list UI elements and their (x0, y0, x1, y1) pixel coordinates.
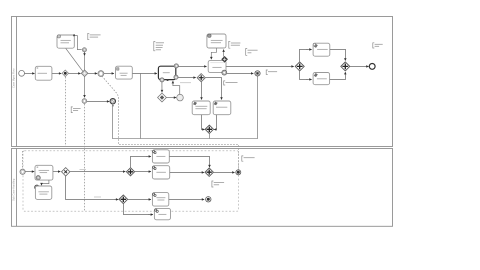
wire BE3 down to gateway G3 (161, 82, 163, 92)
gateway GP5 (parallel) (126, 168, 134, 176)
boundary event BE3 (bottom-left of CA1) (160, 78, 164, 82)
message flow dashed from G1 down (65, 77, 67, 146)
group rect (dashed, bottom pool) (23, 151, 239, 211)
wire G1 to gateway G2 (69, 72, 81, 74)
wire GX down to gateway GP7 (66, 176, 117, 199)
wire TA elbow down to box TB (42, 180, 49, 185)
task B3top (Process Config) (207, 34, 226, 48)
wire B3 to gateway G7 (226, 65, 294, 67)
wire BE1 to task B3 (178, 65, 206, 67)
wire E1 down to G2 (84, 52, 86, 56)
wire GP5 to box BB2 (135, 171, 151, 173)
wire E2 to event E3 (87, 100, 110, 102)
event E1 (intermediate) (82, 48, 86, 52)
wire G3 to event E5 (166, 97, 176, 99)
wire BB2 to gateway GP6 (170, 171, 204, 173)
annotation T1a (near B1) (88, 33, 90, 39)
start event S1 (19, 70, 25, 76)
boundary event E8 (bottom-right of B3) (222, 70, 227, 75)
task B4 (192, 101, 210, 115)
wire BE2 to gateway G4 (178, 77, 196, 79)
gateway G6 (event, dark) on B3 top-right (222, 56, 228, 62)
start event S2 (bottom pool) (20, 169, 25, 174)
task T1 (35, 66, 52, 80)
pool P1 (top) (12, 17, 393, 147)
wire B4 down to gateway G5 (202, 115, 204, 130)
boundary event BE1 (top-right of CA1) (174, 64, 178, 68)
pool P2 (bottom) (12, 149, 393, 227)
event EB (dark ring, on TB corner) (35, 185, 39, 189)
gateway G2 (exclusive X) (81, 70, 88, 77)
wire rail bottom (113, 138, 258, 140)
wire S1 to task T1 (25, 72, 35, 74)
wire G7 down to task TD (300, 71, 309, 80)
wire BB3 to end event EN3 (169, 198, 204, 200)
message flow dashed to bp start (22, 151, 24, 169)
label on wire (80, 169, 87, 171)
event E3 (dark ring) (110, 99, 115, 107)
wire GX to gateway GP5 (70, 171, 126, 173)
annotation B2a (near EN3) (212, 181, 214, 187)
gateway GX (exclusive) (62, 168, 70, 176)
wire G4 right down to task B5 (205, 78, 221, 99)
wire G2 to event E4 (88, 72, 97, 74)
task B3 (Sub Case Handle) (208, 61, 226, 73)
end event EN1 (369, 64, 375, 70)
event E4 (intermediate) (98, 71, 104, 77)
wire GP5 up to box BB1 (131, 156, 149, 167)
wire G5 down to rail (209, 133, 211, 139)
gateway G3 (complex) (158, 93, 167, 102)
wire B1 diagonal to G2 (66, 48, 83, 71)
wire B3top elbow down to B3 (211, 48, 216, 59)
gateway G1 (inclusive, dot) (62, 70, 68, 76)
wire E4 to task T2 (104, 72, 114, 74)
end event EN3 (206, 197, 211, 202)
annotation B1a (near EN2) (242, 156, 244, 161)
wire T1 to gateway G1 (52, 72, 61, 74)
wire GP6 to end event EN2 (213, 171, 234, 173)
label on wire (180, 82, 191, 84)
event E9 (dark square inside) (255, 71, 260, 76)
message flow dashed curve E4 to group (102, 76, 239, 169)
task T2 (116, 66, 133, 79)
wire E5 up to CA1 bottom (173, 82, 180, 94)
wire gateway G6 up to B3top (223, 50, 225, 57)
wire S2 to task TA (25, 171, 34, 173)
gateway GP7 (parallel) (119, 195, 128, 204)
wire E8 to event E9 (227, 72, 254, 74)
wire rail up to E9 (257, 76, 259, 139)
wire G4 down to task B4 (201, 82, 203, 100)
annotation A6 (near B3 bottom) (224, 81, 226, 85)
task B5 (213, 101, 231, 115)
task TA (35, 165, 53, 180)
box BB2 (152, 166, 169, 179)
gateway G5 (parallel) (205, 125, 213, 133)
gateway GP6 (parallel join) (205, 168, 213, 176)
wire GP7 down to box BB4 (124, 204, 151, 215)
svg-text:Case Mgmt Flow: Case Mgmt Flow (12, 68, 16, 88)
label on wire (94, 196, 101, 198)
gateway G7 (parallel split) (295, 62, 304, 71)
annotation A1 (right of B3top) (229, 41, 231, 48)
wire drop x140 (140, 73, 142, 138)
wire B5 down to gateway G5 (215, 115, 218, 130)
annotation A2 (246, 49, 248, 56)
task TD (313, 73, 330, 85)
gateway G4 (parallel) (197, 74, 205, 82)
subprocess box B1 (top-left) (57, 34, 75, 48)
wire GP7 to box BB3 (128, 198, 151, 200)
wire G7 up to task TU (300, 49, 309, 61)
box TB (35, 186, 51, 199)
box BB3 (152, 193, 168, 207)
wire TD to gateway G8 (330, 73, 346, 79)
event E5 (177, 94, 184, 101)
end event EN2 (236, 170, 241, 175)
task TU (313, 43, 330, 56)
event E2 (intermediate) (82, 99, 87, 104)
wire G2 down to event E2 (84, 77, 86, 98)
wire T2 to call activity CA1 (132, 72, 157, 74)
wire TA to gateway GX (53, 171, 60, 173)
svg-text:Sub Case Handling: Sub Case Handling (12, 178, 16, 201)
wire G8 to end event (350, 65, 369, 67)
annotation A4 (top right) (373, 43, 375, 48)
box BB1 (152, 150, 169, 163)
boundary event BE2 (right of CA1) (174, 75, 178, 79)
wire TU to gateway G8 (330, 49, 346, 59)
wire BB1 to gateway GP6 (169, 156, 209, 165)
call activity CA1 (bold border) (158, 66, 175, 81)
annotation A3 (right of E9) (266, 70, 268, 74)
annotation T3a (above CA1) (154, 42, 156, 51)
box BB4 (154, 208, 170, 219)
message flow dashed from E2 down (84, 104, 86, 211)
wire E3 down to rail (112, 104, 114, 139)
wire B1 elbow to event E1 (75, 36, 82, 50)
annotation A5 (below G2) (71, 107, 73, 113)
boundary event BE4 (bottom-left of TA) (36, 176, 40, 180)
gateway G8 (parallel join) (341, 62, 350, 71)
